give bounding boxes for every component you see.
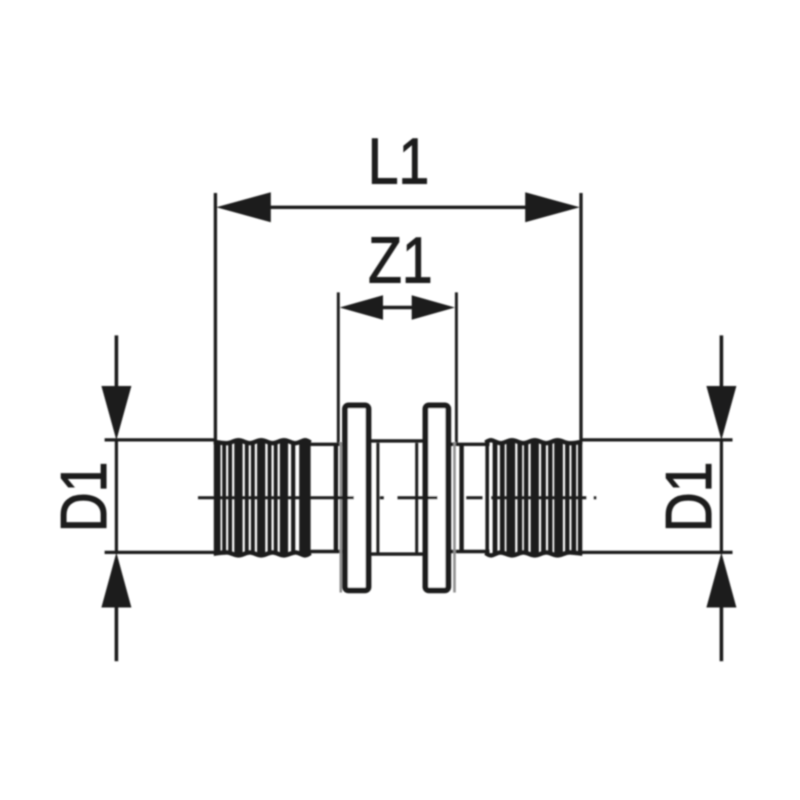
center hub between flanges bbox=[369, 441, 426, 554]
right smooth neck section bbox=[450, 444, 490, 551]
D1 right dimension line upper arrow bbox=[706, 335, 736, 440]
L1 dimension line with arrows bbox=[216, 192, 580, 222]
axis centerline (chain line) bbox=[198, 496, 596, 499]
right flange disc bbox=[425, 405, 448, 590]
right pipe-stop edge line bbox=[459, 444, 463, 553]
left smooth neck section bbox=[308, 444, 344, 551]
left flange disc bbox=[345, 405, 369, 590]
Z1 dimension line with outward arrows bbox=[340, 295, 455, 319]
svg-text:D1: D1 bbox=[652, 462, 725, 533]
svg-text:Z1: Z1 bbox=[368, 223, 432, 296]
D1 left dimension line upper arrow bbox=[101, 335, 131, 440]
D1 right dimension line lower arrow bbox=[706, 553, 736, 662]
svg-text:L1: L1 bbox=[368, 124, 429, 197]
coupling body: right ribbed (serrated) end bbox=[485, 440, 582, 555]
left insertion-depth grey line bbox=[339, 442, 342, 593]
D1 left top extension line bbox=[105, 438, 217, 441]
Z1 right extension line bbox=[455, 292, 458, 442]
D1 left bottom extension line bbox=[105, 551, 217, 554]
L1 left extension line bbox=[214, 193, 217, 441]
L1 right extension line bbox=[579, 193, 582, 440]
left pipe-stop edge line bbox=[334, 444, 338, 553]
right insertion-depth grey line bbox=[453, 442, 456, 593]
Z1 left extension line bbox=[337, 292, 340, 442]
D1 right dimension line middle segment bbox=[720, 439, 723, 554]
D1 left dimension line lower arrow bbox=[101, 553, 131, 662]
D1 right top extension line bbox=[580, 438, 733, 441]
coupling body: left ribbed (serrated) end bbox=[214, 440, 311, 555]
D1 right bottom extension line bbox=[580, 551, 733, 554]
svg-text:D1: D1 bbox=[47, 462, 120, 533]
D1 left dimension line middle segment bbox=[115, 439, 118, 554]
